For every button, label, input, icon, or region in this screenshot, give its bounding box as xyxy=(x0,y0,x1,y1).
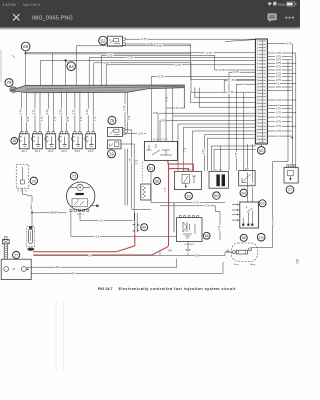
wire y108 stub xyxy=(166,107,185,109)
relay 76 terminal pins xyxy=(123,129,125,135)
svg-text:0.75: 0.75 xyxy=(46,109,49,114)
wire 2.5 lower xyxy=(71,235,176,237)
cold start valve top terminal pins xyxy=(179,216,199,218)
wire y134.6 into ECU xyxy=(205,134,257,136)
svg-text:GN: GN xyxy=(195,254,199,257)
svg-text:31: 31 xyxy=(257,139,259,141)
svg-text:GN: GN xyxy=(168,249,172,252)
wire y120.4 into ECU xyxy=(160,119,256,121)
svg-text:0.75: 0.75 xyxy=(40,116,43,121)
svg-text:2.5: 2.5 xyxy=(96,235,100,238)
ECU connector pin ticks and numbers xyxy=(259,41,266,143)
svg-text:0.75: 0.75 xyxy=(86,109,89,114)
wire GN/SN bottom horizontal xyxy=(34,254,225,256)
svg-text:0.75: 0.75 xyxy=(185,147,187,152)
box 61 internal contacts xyxy=(147,144,173,155)
wire drop x178 to box62 xyxy=(177,124,179,171)
box 63 left stub wires xyxy=(232,204,240,220)
resistor zigzag in box 78 xyxy=(143,186,146,198)
label 0.75 wire y55.3 xyxy=(106,54,113,57)
component callout 17 (ignition coil) xyxy=(13,251,20,258)
wiring harness band (thick loom) xyxy=(10,87,17,93)
svg-text:69: 69 xyxy=(23,44,29,49)
svg-text:59: 59 xyxy=(214,193,218,198)
relay 76 internal symbol xyxy=(110,129,120,135)
box 64 internal symbol xyxy=(242,174,251,183)
component callout 52 (main relay) xyxy=(99,36,108,45)
svg-text:RT: RT xyxy=(71,272,75,275)
svg-text:25: 25 xyxy=(257,119,259,121)
svg-text:19: 19 xyxy=(109,151,114,156)
label 0.75 rotated x219 xyxy=(218,225,221,231)
wire diagonal into ECU top xyxy=(225,40,255,42)
svg-text:0.75: 0.75 xyxy=(54,116,57,121)
air flow meter bottom pins xyxy=(70,209,89,211)
wire drop x151.3 to box61 xyxy=(150,76,152,141)
svg-text:64: 64 xyxy=(69,64,75,69)
wire y107.2 into ECU xyxy=(199,106,256,108)
svg-text:30 a 30 b: 30 a 30 b xyxy=(215,169,223,171)
label 0.75 rotated x203 xyxy=(202,149,205,155)
arrow at air flow meter right xyxy=(90,205,99,207)
svg-text:29: 29 xyxy=(257,133,259,135)
sensor internal element xyxy=(20,167,24,184)
svg-text:0.75: 0.75 xyxy=(219,225,221,230)
svg-text:0.75: 0.75 xyxy=(276,130,281,133)
svg-text:5: 5 xyxy=(257,54,258,56)
svg-text:SW-RT: SW-RT xyxy=(31,202,33,210)
junction right edge xyxy=(291,137,293,139)
svg-text:Zyl 1: Zyl 1 xyxy=(22,150,28,153)
component callout 15 (injectors) xyxy=(11,138,18,145)
fuse terminals xyxy=(232,251,235,254)
wire y84.2 into ECU xyxy=(236,83,256,85)
svg-text:0.75: 0.75 xyxy=(287,43,292,46)
wire drop x190.7 xyxy=(190,44,192,79)
wire drop x194.9 from harness xyxy=(194,88,196,98)
svg-text:17: 17 xyxy=(14,253,18,257)
component callout 61 xyxy=(147,164,154,171)
wire GN into fuse xyxy=(225,251,232,253)
svg-text:63: 63 xyxy=(260,202,264,206)
label SN xyxy=(88,254,92,257)
svg-text:−: − xyxy=(5,268,7,271)
status bar background xyxy=(0,0,300,27)
svg-text:0.75: 0.75 xyxy=(233,70,239,74)
wire sensor to fuel pump 22 xyxy=(22,194,32,230)
label 0.75 rotated x184 xyxy=(183,146,187,154)
svg-text:6: 6 xyxy=(296,259,300,266)
svg-text:71: 71 xyxy=(72,174,76,179)
ignition coil tower (bolt symbol) xyxy=(2,237,9,260)
wire drop x220 down xyxy=(219,211,221,240)
label 0.75 rotated x236 xyxy=(235,152,238,158)
battery icon xyxy=(286,2,296,6)
red wire branch to relay 62 xyxy=(169,169,189,172)
wire bus y60 long horizontal xyxy=(41,59,257,61)
wire from AFM pin down xyxy=(79,211,81,220)
coil terminal 15 xyxy=(21,267,26,272)
svg-text:9: 9 xyxy=(257,67,258,69)
svg-text:21: 21 xyxy=(257,106,259,108)
svg-text:0.75: 0.75 xyxy=(153,112,158,115)
wires dropping from relay column to distributor plug xyxy=(131,130,133,210)
red wire coil to distributor plug xyxy=(33,233,135,251)
wire corner x214.6 down xyxy=(214,55,216,70)
svg-text:0.75: 0.75 xyxy=(236,152,238,157)
thermo time switch box 63 xyxy=(240,202,259,228)
box 62 internal relay symbol xyxy=(182,174,196,187)
box 63 left terminal ticks xyxy=(236,203,238,221)
wire from 69 down to harness xyxy=(25,51,27,86)
relay 52 terminal pins xyxy=(123,38,126,45)
wire y102.6 into ECU xyxy=(191,102,256,104)
wire RT lower bend xyxy=(222,262,224,273)
wire drop x65.6 to harness xyxy=(65,60,67,85)
svg-text:G W: G W xyxy=(245,169,249,171)
box 77 internal symbol xyxy=(288,170,294,180)
wire drop x229 to box64 area xyxy=(228,72,230,170)
svg-text:12: 12 xyxy=(257,77,259,79)
svg-text:23: 23 xyxy=(257,113,259,115)
component callout 36 (fuse) xyxy=(240,234,247,241)
wire RT upper xyxy=(26,266,177,268)
wire y97.6 into ECU xyxy=(195,97,256,99)
close (X) toolbar button xyxy=(13,14,19,20)
wire 2.5 upper xyxy=(80,219,133,221)
svg-text:3: 3 xyxy=(257,47,258,49)
fuel injector Zyl 6 xyxy=(85,132,96,149)
wire y146 into ECU stub xyxy=(211,145,256,147)
relay 52 internal switch symbol xyxy=(109,39,120,44)
gray harness stub into cold start box xyxy=(173,203,175,232)
intake sensor dashed box 23 xyxy=(16,164,29,188)
svg-text:27: 27 xyxy=(257,126,259,128)
svg-text:79: 79 xyxy=(7,80,12,85)
coil terminal 1 xyxy=(4,267,9,272)
wire y80.2 into ECU xyxy=(224,79,256,81)
svg-text:0.75: 0.75 xyxy=(166,96,168,101)
component callout 60 xyxy=(154,178,161,185)
ballast resistor box 59 xyxy=(209,171,228,188)
label GN xyxy=(195,254,199,257)
wires up from plug to air flow meter xyxy=(134,213,136,222)
svg-text:1: 1 xyxy=(257,41,258,43)
svg-text:0.75: 0.75 xyxy=(147,42,153,46)
label 0.75 on relay52 wire xyxy=(140,38,147,41)
wire y45.8 horizontal xyxy=(76,45,191,47)
fuel injector Zyl 4 xyxy=(58,132,69,149)
svg-text:23: 23 xyxy=(32,178,36,183)
svg-text:16: 16 xyxy=(257,90,259,92)
rotation lock icon xyxy=(273,2,276,6)
label 0.75 y108 xyxy=(173,107,180,110)
wire y205.8 horizontal xyxy=(160,205,215,207)
right-side wire gauge labels xyxy=(286,42,293,45)
black bar inside air flow meter xyxy=(75,193,83,195)
fuse inner lines xyxy=(237,250,239,254)
wire drop x52 to harness xyxy=(51,53,53,85)
svg-text:9 8 7 6 5: 9 8 7 6 5 xyxy=(77,214,84,216)
svg-text:24: 24 xyxy=(257,116,259,118)
motor M inside air flow meter xyxy=(70,184,90,190)
label SW-RT xyxy=(50,211,58,214)
svg-text:M: M xyxy=(79,186,82,190)
component callout 62 xyxy=(185,192,192,199)
small tick mark upper left xyxy=(12,55,15,58)
label 0.75 wire y64.8 xyxy=(174,63,181,66)
wire ECU bottom to timer box left xyxy=(246,144,248,202)
svg-text:0.75: 0.75 xyxy=(158,74,164,78)
right edge vertical wires xyxy=(291,44,293,165)
wire drop x93.8 to harness xyxy=(93,63,95,86)
wire y138.2 into ECU xyxy=(208,137,257,139)
wifi icon xyxy=(268,2,272,5)
wire pair from harness to injector 4 xyxy=(62,92,67,131)
wire short y211.4 xyxy=(215,210,220,212)
label RGR-WS rotated xyxy=(271,217,274,227)
component callout 69 (diagnostic plug) xyxy=(21,42,30,51)
svg-text:SN: SN xyxy=(88,254,92,257)
svg-text:RT: RT xyxy=(56,266,60,269)
svg-text:IMG_0965.PNG: IMG_0965.PNG xyxy=(32,16,73,22)
relay box 62 xyxy=(174,171,201,189)
wire drop x101.5 to harness xyxy=(101,55,103,85)
svg-text:8: 8 xyxy=(257,64,258,66)
labels 0.75 on injector 4 wires xyxy=(59,109,62,116)
wire bend into long drop x272.7 xyxy=(273,161,288,163)
svg-text:0.75: 0.75 xyxy=(27,116,30,121)
relay box 77 right edge xyxy=(284,167,298,183)
svg-text:10: 10 xyxy=(257,70,259,72)
component callout 76 (pump relay) xyxy=(108,116,116,124)
svg-text:Eing.: Eing. xyxy=(234,264,239,266)
cold start valve box 65 xyxy=(177,218,202,242)
component callout 23 (sensor) xyxy=(30,177,37,184)
svg-text:0.75: 0.75 xyxy=(276,125,281,128)
label 0.75 wire y92.2 xyxy=(227,91,234,94)
wire drop x204.5 to box59 xyxy=(204,135,206,171)
labels 0.75 on injector 1 wires xyxy=(19,109,22,116)
wire x166 harness to box61 xyxy=(165,88,167,142)
label 0.75 wire y53 right xyxy=(205,52,213,55)
svg-text:Ausg.: Ausg. xyxy=(250,263,256,266)
wire bus y53 from 69 junction to right xyxy=(26,53,256,54)
svg-text:SW-RT: SW-RT xyxy=(50,212,58,215)
wire y131 into ECU xyxy=(193,130,257,132)
component callout 64 lower xyxy=(240,189,247,196)
more (...) toolbar icon xyxy=(285,17,294,19)
label 0.75 relay76 wire xyxy=(137,132,144,135)
svg-text:0.75: 0.75 xyxy=(228,90,234,94)
component callout 100 xyxy=(257,233,265,241)
wire into fuse output xyxy=(251,247,273,249)
cold start valve internals xyxy=(183,222,195,238)
component callout 65 xyxy=(203,232,210,239)
wire into GN line xyxy=(187,252,189,255)
svg-text:72%: 72% xyxy=(277,2,285,7)
label 1.5 rotated x246 xyxy=(245,168,248,173)
svg-text:15: 15 xyxy=(12,139,16,143)
wire relay52 pin2 toward right xyxy=(125,43,191,45)
svg-text:0.75: 0.75 xyxy=(94,116,97,121)
component callout 59 xyxy=(213,192,220,199)
svg-text:30: 30 xyxy=(257,136,259,138)
wire x151 under box61 xyxy=(150,172,152,203)
svg-text:0.75: 0.75 xyxy=(276,99,281,102)
svg-text:0.75: 0.75 xyxy=(129,115,131,120)
fuel injector Zyl 5 xyxy=(71,132,82,149)
svg-text:4:32 PM: 4:32 PM xyxy=(3,3,16,7)
faint page edge artifacts xyxy=(56,300,64,372)
svg-text:19: 19 xyxy=(257,100,259,102)
wire y202.4 horizontal xyxy=(151,201,225,203)
sensor bottom terminal ticks xyxy=(17,190,27,192)
wire pair from harness to injector 5 xyxy=(75,92,80,131)
svg-text:Zyl 2: Zyl 2 xyxy=(35,150,41,153)
wire drop x134 to plug xyxy=(133,144,135,221)
svg-text:0.75: 0.75 xyxy=(276,120,281,123)
component callout 50 (ECU) xyxy=(258,147,266,155)
ignition coil terminal box xyxy=(1,259,31,279)
svg-text:4: 4 xyxy=(257,51,258,53)
sensor box 64 xyxy=(239,171,255,186)
label 0.75 wire y70 xyxy=(218,68,225,71)
label 0.75 y202.4 xyxy=(193,201,200,204)
fuel injector Zyl 1 xyxy=(18,132,29,149)
junction x32 y212.8 xyxy=(31,212,33,214)
wire ECU bottom to timer box right xyxy=(252,144,254,202)
wire relay76 pin1 stub xyxy=(125,129,132,131)
label 0.75 rotated x130 xyxy=(129,157,132,163)
svg-text:0.75: 0.75 xyxy=(165,187,167,192)
label 0.75 rotated x136 xyxy=(135,159,138,165)
fuel injector Zyl 3 xyxy=(45,132,56,149)
svg-text:26: 26 xyxy=(257,123,259,125)
label 0.75 rotated x166 xyxy=(165,96,168,102)
svg-text:0.75: 0.75 xyxy=(175,63,181,67)
wire y149.2 stub xyxy=(214,148,256,150)
svg-text:0.75: 0.75 xyxy=(138,133,143,136)
wire pair from harness to injector 2 xyxy=(35,92,40,131)
wire drop x40.5 to harness xyxy=(40,60,42,85)
wire y64.8 horizontal xyxy=(106,64,256,66)
label GN second xyxy=(168,249,172,252)
component callout 63 xyxy=(259,200,266,207)
svg-text:17: 17 xyxy=(257,93,259,95)
svg-text:RGR-WS: RGR-WS xyxy=(273,217,275,227)
wires from harness down to relay 76 terminals xyxy=(125,92,128,134)
wire RT lower xyxy=(31,272,223,274)
dashed boundary left of box 78 xyxy=(141,162,143,183)
svg-text:0.75: 0.75 xyxy=(67,116,70,121)
svg-text:0.75: 0.75 xyxy=(107,53,113,57)
wire switch19 stub xyxy=(121,143,134,145)
svg-text:0.75: 0.75 xyxy=(276,108,281,111)
fuel pump capsule xyxy=(29,229,33,243)
label 0.75 wire y45.8 xyxy=(155,44,162,47)
label 0.75 on relay52 pin2 wire xyxy=(146,42,153,45)
svg-text:0.75: 0.75 xyxy=(206,51,212,55)
svg-text:0.75: 0.75 xyxy=(219,68,225,72)
svg-text:Zyl 4: Zyl 4 xyxy=(62,150,68,153)
wire drop x236.3 to box64 xyxy=(235,84,237,170)
svg-text:0.75: 0.75 xyxy=(276,116,281,119)
label 0.75 wire y72.2 xyxy=(232,71,239,74)
wires dropping below switch 19 xyxy=(125,149,128,206)
wire corner x224 down xyxy=(223,80,225,92)
label 0.75 y205.8 xyxy=(204,204,211,207)
connector symbol under cold start box xyxy=(186,242,191,251)
long vertical wire x272.7 to fuse xyxy=(272,162,274,248)
svg-text:0.75: 0.75 xyxy=(124,105,126,110)
svg-text:61: 61 xyxy=(149,165,153,170)
label RT lower xyxy=(71,272,75,275)
comment bubble toolbar icon xyxy=(268,13,277,22)
svg-text:11: 11 xyxy=(257,74,259,76)
wire y124 into ECU xyxy=(178,123,256,125)
component callout 79 (harness) xyxy=(5,79,13,87)
wire drop x199.2 from harness xyxy=(198,88,200,108)
labels 0.75 on injector 2 wires xyxy=(32,109,35,116)
wire drop x211.3 xyxy=(210,146,212,171)
red wire upper loop to relay 62 right terminal xyxy=(168,164,194,171)
svg-text:76: 76 xyxy=(110,118,115,123)
svg-text:36: 36 xyxy=(242,236,246,240)
svg-text:7: 7 xyxy=(257,60,258,62)
wire pair from harness to injector 3 xyxy=(48,92,53,131)
wire from sensor down xyxy=(21,188,23,194)
svg-text:Zyl 3: Zyl 3 xyxy=(48,150,54,153)
wire y57.6 horizontal xyxy=(89,57,256,59)
wire drop x190.6 extension xyxy=(190,92,192,102)
stub ECU bottom to 50 xyxy=(260,144,262,147)
right vertical x288 xyxy=(287,60,289,162)
svg-text:0.75: 0.75 xyxy=(141,37,147,41)
label RT upper xyxy=(56,266,60,269)
relay 76 box xyxy=(107,127,122,136)
wire pair from harness to injector 6 xyxy=(88,92,93,131)
label 0.75 y113 xyxy=(152,112,159,115)
fuel pump dashed box 22 xyxy=(27,227,35,247)
labels 0.75 on injector 6 wires xyxy=(86,109,89,116)
wire drop x183.5 to box62 xyxy=(183,127,185,171)
wire from AFM pin down left xyxy=(70,211,72,236)
label 0.75 rotated x124 xyxy=(122,104,126,112)
fuel pump top cap xyxy=(29,226,32,229)
fuel injector Zyl 2 xyxy=(32,132,43,149)
box 63 internal contacts xyxy=(243,206,252,224)
component callout 60 (plug) xyxy=(141,224,148,231)
label 0.75 rotated x229 xyxy=(228,77,231,83)
svg-text:Zyl 6: Zyl 6 xyxy=(88,150,94,153)
svg-text:0.75: 0.75 xyxy=(205,205,210,208)
wire y76.4 into ECU xyxy=(151,75,256,77)
box 59 black bars xyxy=(216,174,225,186)
relay 52 box xyxy=(107,36,122,46)
svg-text:100: 100 xyxy=(259,235,264,239)
label 1 wire y84.2 xyxy=(244,83,247,86)
svg-text:0.75: 0.75 xyxy=(276,86,281,89)
box 77 terminal pins xyxy=(287,165,296,167)
wire y113 into ECU xyxy=(158,112,256,114)
box 63 bottom terminal dots xyxy=(242,224,253,226)
wire y70 into ECU xyxy=(215,69,256,71)
label 0.75 y120.4 xyxy=(159,119,166,122)
wire drop x214 xyxy=(213,149,215,171)
svg-text:22: 22 xyxy=(257,110,259,112)
wire link junction to 64 xyxy=(66,60,68,63)
